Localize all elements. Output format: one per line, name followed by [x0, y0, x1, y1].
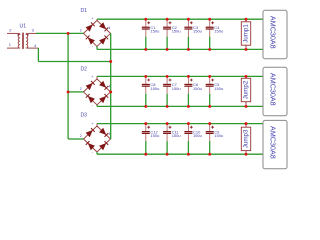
svg-text:Jump3: Jump3: [243, 129, 250, 148]
amplifier module U3 AMC30A8: [263, 67, 287, 115]
diode D2 upper-left: [86, 83, 93, 90]
wire: right AC bus vertical: [110, 33, 112, 139]
svg-text:150u: 150u: [150, 29, 159, 34]
svg-text:Jump2: Jump2: [243, 80, 250, 99]
svg-text:AMC30A8: AMC30A8: [269, 126, 278, 159]
junction right bus / D2 AC: [109, 90, 112, 93]
junction row2 bottom cap 2: [166, 105, 169, 108]
svg-text:150u: 150u: [214, 29, 223, 34]
junction row1 top cap 1: [144, 18, 147, 21]
amplifier module U2 AMC30A8: [263, 10, 287, 58]
junction row1 bottom cap 4: [208, 48, 211, 51]
junction row3 bottom cap 2: [166, 153, 169, 156]
diode D1 lower-right: [99, 37, 106, 44]
bridge rectifier D1: [84, 20, 111, 46]
wire: D1 minus stub: [96, 46, 98, 49]
capacitor C7 150u: [163, 76, 181, 106]
capacitor C2 150u: [163, 19, 181, 49]
junction left bus / U1 pin3: [67, 32, 70, 35]
transformer U1: [7, 33, 38, 49]
jumper Jump2: [241, 76, 250, 106]
junction row1 bottom cap 3: [187, 48, 190, 51]
svg-text:2: 2: [80, 134, 82, 138]
junction row3 top cap 1: [144, 122, 147, 125]
capacitor C11 150u: [163, 124, 181, 155]
junction row1 top cap 2: [166, 18, 169, 21]
svg-text:2: 2: [80, 29, 82, 33]
junction row2 top cap 1: [144, 75, 147, 78]
diode D3 upper-left: [86, 130, 93, 137]
capacitor C10 150u: [184, 124, 202, 155]
wire: D2 plus stub: [96, 76, 98, 79]
junction left bus / D2 AC: [67, 90, 70, 93]
capacitor C1 150u: [142, 19, 160, 49]
svg-text:150u: 150u: [214, 133, 223, 138]
jumper Jump1: [241, 19, 250, 49]
diode D2 lower-left: [88, 96, 95, 103]
wire: left bus to D2 AC left: [68, 91, 83, 93]
junction row3 top cap 2: [166, 122, 169, 125]
wire: row3 bottom rail: [97, 153, 263, 155]
wire: U1 pin4 drop: [37, 48, 39, 61]
svg-text:150u: 150u: [193, 133, 202, 138]
wire: left AC bus vertical: [67, 33, 69, 139]
junction Jump1 top: [245, 18, 248, 21]
diode D1 upper-right: [99, 22, 106, 29]
diode D2 upper-right: [99, 81, 106, 88]
junction Jump2 top: [245, 75, 248, 78]
svg-text:4: 4: [108, 26, 110, 30]
svg-text:150u: 150u: [214, 86, 223, 91]
junction row3 bottom cap 4: [208, 153, 211, 156]
svg-text:150u: 150u: [193, 86, 202, 91]
diode D3 lower-right: [99, 143, 106, 150]
wire: left bus to D3 AC left: [68, 138, 83, 140]
diode D2 lower-right: [99, 96, 106, 103]
svg-text:AMC30A8: AMC30A8: [269, 73, 278, 106]
svg-text:150u: 150u: [172, 29, 181, 34]
bridge rectifier D2: [84, 79, 111, 105]
junction Jump1 bottom: [245, 48, 248, 51]
svg-text:150u: 150u: [150, 133, 159, 138]
capacitor C3 150u: [184, 19, 202, 49]
junction Jump3 bottom: [245, 153, 248, 156]
junction row1 top cap 4: [208, 18, 211, 21]
wire: row1 top rail: [97, 18, 263, 20]
capacitor C9 150u: [206, 124, 224, 155]
junction row2 bottom cap 4: [208, 105, 211, 108]
wire: row2 bottom rail: [97, 105, 263, 107]
svg-text:D2: D2: [81, 66, 88, 72]
wire: row3 top rail: [97, 123, 263, 125]
diode D1 lower-left: [88, 37, 95, 44]
junction row2 top cap 4: [208, 75, 211, 78]
junction row3 bottom cap 1: [144, 153, 147, 156]
junction row1 bottom cap 2: [166, 48, 169, 51]
junction Jump3 top: [245, 122, 248, 125]
svg-text:D1: D1: [81, 8, 88, 14]
capacitor C8 150u: [142, 76, 160, 106]
wire: D3 minus stub: [96, 152, 98, 154]
wire: row1 bottom rail: [97, 48, 263, 50]
wire: D1 plus stub: [96, 19, 98, 20]
amplifier module U4 AMC30A8: [263, 120, 287, 168]
capacitor C4 150u: [206, 19, 224, 49]
diode D1 upper-left: [86, 24, 93, 31]
wire: U1 pin4 horizontal to right bus: [38, 61, 110, 63]
svg-text:Jump1: Jump1: [243, 24, 250, 43]
bridge rectifier D3: [84, 126, 111, 152]
svg-text:D3: D3: [81, 113, 88, 119]
wire: row2 top rail: [97, 75, 263, 77]
wire: D1 right stub: [110, 32, 112, 34]
svg-text:150u: 150u: [172, 133, 181, 138]
junction row1 bottom cap 1: [144, 48, 147, 51]
svg-text:150u: 150u: [172, 86, 181, 91]
junction row3 bottom cap 3: [187, 153, 190, 156]
junction row2 top cap 3: [187, 75, 190, 78]
junction row2 top cap 2: [166, 75, 169, 78]
junction row1 top cap 3: [187, 18, 190, 21]
diode D3 lower-left: [88, 143, 95, 150]
diode D3 upper-right: [99, 128, 106, 135]
svg-text:2: 2: [80, 87, 82, 91]
svg-text:150u: 150u: [193, 29, 202, 34]
jumper Jump3: [241, 124, 250, 155]
svg-text:U1: U1: [20, 24, 27, 30]
junction row2 bottom cap 3: [187, 105, 190, 108]
wire: U1 pin3 to D1 AC left: [36, 32, 84, 34]
wire: D2 minus stub: [96, 105, 98, 107]
wire: D3 plus stub: [96, 124, 98, 126]
junction Jump2 bottom: [245, 105, 248, 108]
capacitor C5 150u: [206, 76, 224, 106]
junction row3 top cap 3: [187, 122, 190, 125]
svg-text:AMC30A8: AMC30A8: [269, 16, 278, 49]
svg-text:150u: 150u: [150, 86, 159, 91]
junction row2 bottom cap 1: [144, 105, 147, 108]
junction right bus / U1 pin4: [109, 60, 112, 63]
capacitor C12 150u: [142, 124, 160, 155]
capacitor C6 150u: [184, 76, 202, 106]
U1 phase dots: [18, 34, 20, 36]
junction row3 top cap 4: [208, 122, 211, 125]
